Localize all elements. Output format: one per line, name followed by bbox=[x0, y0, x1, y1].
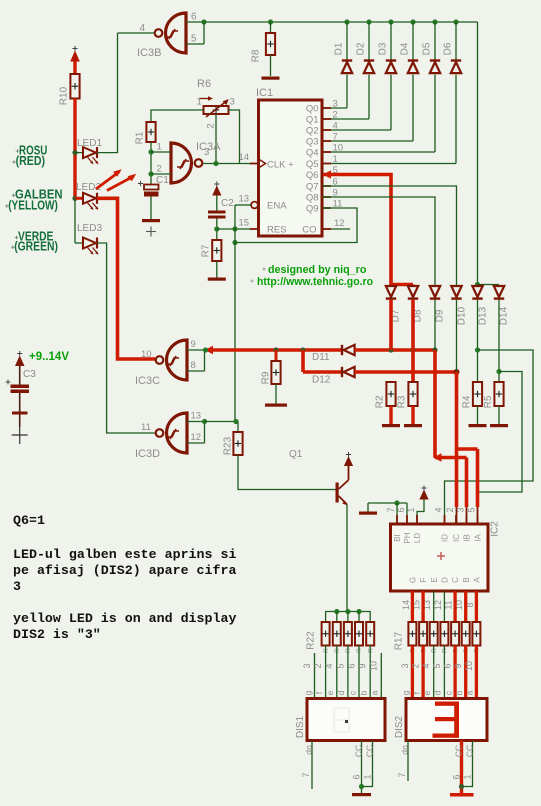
svg-text:7: 7 bbox=[386, 507, 396, 512]
wire to DIS1 c bbox=[358, 646, 360, 699]
svg-text:D3: D3 bbox=[378, 42, 389, 55]
svg-text:E: E bbox=[430, 577, 439, 582]
supply arrow C2 bbox=[212, 186, 221, 196]
svg-text:a: a bbox=[370, 690, 380, 695]
digit 3 on DIS2 bbox=[435, 702, 458, 706]
svg-text:8: 8 bbox=[191, 360, 196, 371]
IC2 origin cross bbox=[437, 555, 445, 557]
svg-text:Q0: Q0 bbox=[306, 104, 319, 115]
pin Q2 (pin 4) bbox=[322, 129, 331, 131]
svg-text:3: 3 bbox=[333, 99, 338, 110]
svg-text:7: 7 bbox=[397, 772, 407, 777]
svg-text:1: 1 bbox=[333, 154, 338, 165]
svg-text:14: 14 bbox=[401, 600, 411, 610]
svg-text:yellow LED is on and display: yellow LED is on and display bbox=[13, 611, 236, 626]
wire R17 to DIS2 f bbox=[421, 646, 424, 699]
resistor R7 bbox=[212, 240, 221, 261]
svg-text:1: 1 bbox=[197, 97, 202, 108]
pin IC2 LD (pin 1) bbox=[416, 515, 418, 524]
svg-text:F: F bbox=[419, 577, 428, 582]
wire R10 to LEDs bbox=[73, 99, 76, 199]
label GALBEN YELLOW bbox=[12, 194, 16, 196]
wire top supply rail bbox=[204, 21, 478, 23]
svg-text:10: 10 bbox=[141, 349, 152, 360]
pin RES (pin 15) bbox=[250, 228, 259, 230]
wire R6 pin3 down bbox=[229, 110, 240, 164]
svg-text:2: 2 bbox=[157, 164, 162, 175]
svg-text:(YELLOW): (YELLOW) bbox=[8, 198, 58, 212]
resistor R2 bbox=[386, 382, 395, 406]
wire R6 pin1 to R1 bbox=[151, 110, 204, 122]
diode D7 bbox=[386, 286, 396, 297]
svg-text:R4: R4 bbox=[462, 395, 473, 408]
svg-text:5: 5 bbox=[191, 34, 197, 45]
pin DIS2 dp bbox=[407, 741, 409, 782]
pin Q9 (pin 11) bbox=[322, 207, 331, 209]
wire red row A bbox=[209, 348, 342, 352]
svg-text:CC: CC bbox=[453, 745, 463, 757]
svg-text:1: 1 bbox=[362, 774, 372, 779]
svg-text:b: b bbox=[454, 690, 464, 695]
svg-text:12: 12 bbox=[191, 432, 202, 443]
wire red V2 to IC2 bbox=[455, 372, 459, 507]
resistor R23 bbox=[237, 422, 239, 433]
svg-text:LED1: LED1 bbox=[77, 138, 102, 149]
wire Q6 red to D7 D8 bbox=[323, 175, 391, 287]
diode D13 bbox=[475, 282, 480, 287]
svg-text:7: 7 bbox=[301, 772, 311, 777]
ground R9 bbox=[265, 404, 287, 407]
wire to DIS1 g bbox=[314, 653, 316, 699]
wire RES net bbox=[217, 228, 250, 230]
svg-text:R: R bbox=[323, 648, 330, 653]
svg-text:d: d bbox=[433, 690, 443, 695]
svg-text:R22: R22 bbox=[306, 631, 317, 650]
pin DIS1 dp bbox=[311, 741, 313, 790]
wire to DIS1 d bbox=[347, 646, 349, 699]
svg-text:(GREEN): (GREEN) bbox=[14, 239, 58, 253]
pin Q7 (pin 6) bbox=[322, 185, 331, 187]
svg-text:pe afisaj (DIS2) apare cifra: pe afisaj (DIS2) apare cifra bbox=[13, 563, 236, 578]
pin Q6 (pin 5) bbox=[322, 174, 331, 176]
pin Q5 (pin 1) bbox=[322, 163, 331, 165]
display DIS1 bbox=[307, 699, 385, 741]
pin IC2 BI (pin 7) bbox=[396, 515, 398, 524]
wire R1 to IC3A inputs bbox=[150, 142, 152, 185]
wire R17 to DIS2 d bbox=[443, 646, 445, 699]
svg-text:Q6=1: Q6=1 bbox=[13, 513, 45, 528]
svg-text:4: 4 bbox=[433, 507, 443, 512]
wire R17 to DIS2 e bbox=[433, 646, 435, 699]
svg-text:R10: R10 bbox=[59, 86, 70, 105]
svg-text:IC1: IC1 bbox=[256, 87, 273, 99]
diode D2 bbox=[366, 19, 371, 24]
diode D1 bbox=[344, 19, 349, 24]
resistor R1 bbox=[146, 122, 155, 142]
svg-text:IC3D: IC3D bbox=[135, 448, 160, 460]
wire to DIS1 f bbox=[325, 646, 327, 699]
svg-text:A: A bbox=[473, 577, 482, 583]
svg-text:IB: IB bbox=[463, 534, 472, 542]
wire IC3B output to LED1 bbox=[117, 33, 119, 153]
pin Q0 (pin 3) bbox=[322, 107, 331, 109]
ground R3 bbox=[404, 424, 422, 427]
diode D10 bbox=[451, 286, 461, 297]
supply arrow Q1 bbox=[344, 456, 353, 466]
svg-text:RES: RES bbox=[267, 225, 287, 236]
svg-text:G: G bbox=[409, 577, 418, 583]
svg-text:R23: R23 bbox=[223, 436, 234, 455]
pin Q8 (pin 9) bbox=[322, 196, 331, 198]
ground R4 bbox=[469, 424, 487, 427]
svg-text:C: C bbox=[451, 577, 460, 583]
diode D5 bbox=[432, 19, 437, 24]
svg-text:CLK +: CLK + bbox=[267, 160, 294, 171]
ground C3 origin cross bbox=[12, 434, 28, 436]
svg-text:4: 4 bbox=[324, 663, 334, 668]
svg-text:CO: CO bbox=[302, 225, 316, 236]
svg-text:D1: D1 bbox=[334, 42, 345, 55]
svg-text:R7: R7 bbox=[201, 244, 212, 257]
svg-text:LED-ul galben este aprins si: LED-ul galben este aprins si bbox=[13, 547, 236, 562]
svg-text:DIS2 is "3": DIS2 is "3" bbox=[13, 627, 101, 642]
resistor R8 bbox=[268, 19, 273, 24]
svg-text:c: c bbox=[443, 690, 453, 695]
svg-text:6: 6 bbox=[346, 663, 356, 668]
svg-text:PH: PH bbox=[403, 532, 412, 543]
pin CO (pin 12) bbox=[322, 228, 350, 230]
svg-text:CC: CC bbox=[353, 745, 363, 757]
pin IC2 IC (pin 2) bbox=[455, 515, 457, 524]
resistor R9 bbox=[275, 350, 278, 361]
pin CLK (pin 14) bbox=[250, 163, 259, 165]
svg-text:g: g bbox=[401, 690, 411, 695]
label VERDE GREEN bbox=[15, 236, 19, 238]
svg-text:R: R bbox=[431, 648, 438, 653]
ground DIS2 highlighted bbox=[450, 793, 474, 797]
wire to DIS1 b bbox=[369, 646, 371, 699]
svg-text:Q4: Q4 bbox=[306, 148, 319, 159]
svg-text:2: 2 bbox=[206, 123, 217, 128]
wire LED3 to IC3D bbox=[97, 243, 155, 433]
svg-text:5: 5 bbox=[432, 663, 442, 668]
svg-text:ENA: ENA bbox=[267, 201, 287, 212]
svg-text:R: R bbox=[356, 648, 363, 653]
svg-text:3: 3 bbox=[302, 663, 312, 668]
svg-text:R2: R2 bbox=[375, 395, 386, 408]
svg-text:a: a bbox=[465, 690, 475, 695]
svg-text:R: R bbox=[334, 648, 341, 653]
diode D8 bbox=[408, 286, 418, 297]
svg-text:13: 13 bbox=[239, 194, 250, 205]
svg-text:6: 6 bbox=[396, 507, 406, 512]
pin DIS2 CC bbox=[460, 741, 463, 794]
svg-text:9: 9 bbox=[358, 663, 368, 668]
resistor R3 bbox=[408, 382, 417, 406]
svg-text:2: 2 bbox=[445, 507, 455, 512]
supply arrow R10 bbox=[70, 51, 80, 62]
svg-text:7: 7 bbox=[333, 132, 338, 143]
svg-text:R9: R9 bbox=[261, 371, 272, 384]
ground R5 bbox=[490, 424, 508, 427]
svg-text:6: 6 bbox=[442, 663, 452, 668]
wire red V1 to IC2 bbox=[433, 350, 437, 458]
node rail-IC3B tie bbox=[201, 19, 206, 24]
wire R17 to DIS2 a bbox=[475, 646, 478, 699]
svg-text:9: 9 bbox=[453, 663, 463, 668]
svg-text:3: 3 bbox=[400, 663, 410, 668]
svg-text:Q9: Q9 bbox=[306, 204, 319, 215]
diode D4 bbox=[410, 19, 415, 24]
svg-text:2: 2 bbox=[333, 110, 338, 121]
svg-text:C2: C2 bbox=[221, 198, 234, 209]
svg-text:13: 13 bbox=[191, 411, 202, 422]
svg-text:D12: D12 bbox=[312, 375, 331, 386]
wire R17 to DIS2 b bbox=[464, 646, 467, 699]
wire Q4 to D5 bbox=[322, 151, 435, 153]
svg-text:D11: D11 bbox=[312, 352, 330, 363]
svg-text:b: b bbox=[358, 690, 368, 695]
wire R17 to DIS2 g bbox=[411, 646, 414, 699]
svg-text:D10: D10 bbox=[457, 306, 468, 325]
wire Q7 to D10 bbox=[322, 186, 457, 286]
svg-text:D4: D4 bbox=[400, 42, 411, 55]
svg-text:DIS2: DIS2 bbox=[394, 715, 405, 738]
svg-text:CC: CC bbox=[464, 745, 474, 757]
svg-text:CC: CC bbox=[364, 745, 374, 757]
svg-text:12: 12 bbox=[334, 218, 345, 229]
pin Q4 (pin 10) bbox=[322, 151, 331, 153]
supply arrow IC2 bbox=[419, 490, 428, 500]
svg-text:3: 3 bbox=[455, 507, 465, 512]
wire Q1 emitter to R22 bbox=[346, 505, 348, 612]
wire D13 net to IC2 ID bbox=[445, 350, 534, 524]
svg-text:10: 10 bbox=[369, 661, 379, 671]
svg-text:BI: BI bbox=[393, 534, 402, 542]
wire to DIS1 e bbox=[336, 646, 338, 699]
svg-text:IC: IC bbox=[452, 534, 461, 542]
wire LED2 to IC3C bbox=[97, 198, 155, 359]
wire R22 supply rail bbox=[325, 611, 370, 613]
svg-text:R3: R3 bbox=[397, 395, 408, 408]
svg-text:Q3: Q3 bbox=[306, 137, 319, 148]
svg-text:1: 1 bbox=[462, 774, 472, 779]
highlight arrows LED2 lit bbox=[96, 172, 120, 190]
svg-text:(RED): (RED) bbox=[16, 154, 45, 168]
diode D3 bbox=[388, 19, 393, 24]
svg-text:DIS1: DIS1 bbox=[295, 715, 306, 738]
svg-text:Q6: Q6 bbox=[306, 170, 319, 181]
svg-text:Q1: Q1 bbox=[289, 449, 303, 460]
svg-text:11: 11 bbox=[141, 422, 151, 433]
LED LED3 bbox=[74, 198, 76, 243]
wire red row B bbox=[301, 350, 305, 372]
svg-text:1: 1 bbox=[157, 142, 162, 153]
svg-text:10: 10 bbox=[464, 661, 474, 671]
svg-text:B: B bbox=[462, 577, 471, 582]
svg-text:D9: D9 bbox=[435, 309, 446, 322]
capacitor C1 bbox=[138, 183, 143, 185]
ground R8 bbox=[262, 77, 280, 80]
IC2 display driver 4511 bbox=[391, 524, 489, 591]
ground IC2 BI PH bbox=[359, 512, 377, 515]
NAND gate IC3D bbox=[167, 413, 188, 453]
svg-text:g: g bbox=[303, 690, 313, 695]
svg-text:d: d bbox=[336, 690, 346, 695]
wire Q9 to ENA net bbox=[235, 208, 357, 243]
svg-text:4: 4 bbox=[139, 23, 145, 34]
svg-text:5: 5 bbox=[466, 507, 476, 512]
wire R17 to DIS2 c bbox=[453, 646, 456, 699]
ground DIS1 bbox=[352, 793, 371, 796]
wire IC3A output to CLK bbox=[203, 163, 250, 165]
svg-text:R: R bbox=[442, 648, 449, 653]
wire D14 net right bbox=[479, 372, 522, 493]
svg-text:R5: R5 bbox=[483, 395, 494, 408]
NAND gate IC3A bbox=[171, 143, 192, 183]
svg-text:Q7: Q7 bbox=[306, 182, 319, 193]
wire IC2 outputs to R17 bbox=[411, 591, 414, 622]
svg-text:C3: C3 bbox=[23, 369, 36, 380]
label ROSU RED bbox=[16, 150, 20, 152]
display DIS2 bbox=[406, 699, 487, 741]
diode D6 bbox=[453, 19, 458, 24]
trimmer R6 bbox=[204, 106, 229, 114]
svg-text:designed by niq_ro: designed by niq_ro bbox=[268, 264, 367, 276]
wire R6 wiper to CLK net bbox=[215, 114, 217, 164]
resistor R10 bbox=[70, 74, 79, 99]
wire row A after D11 bbox=[355, 348, 435, 352]
ground R7 bbox=[208, 278, 226, 281]
svg-text:C1: C1 bbox=[156, 175, 169, 186]
diode D9 bbox=[430, 286, 440, 297]
svg-text:e: e bbox=[422, 690, 432, 695]
capacitor C2 bbox=[208, 211, 226, 214]
svg-text:D5: D5 bbox=[422, 42, 433, 55]
svg-text:R8: R8 bbox=[251, 49, 262, 62]
wire Q1 to D2 bbox=[322, 118, 369, 120]
svg-text:1: 1 bbox=[406, 507, 416, 512]
svg-text:http://www.tehnic.go.ro: http://www.tehnic.go.ro bbox=[257, 276, 373, 288]
svg-text:3: 3 bbox=[13, 579, 21, 594]
resistor R4 bbox=[473, 382, 482, 406]
svg-text:D: D bbox=[441, 577, 450, 583]
svg-text:IC2: IC2 bbox=[490, 521, 501, 537]
wire Q0 to D1 bbox=[322, 107, 347, 109]
resistor R5 bbox=[494, 382, 503, 406]
svg-text:6: 6 bbox=[351, 774, 361, 779]
wire Q8 to D9 bbox=[322, 197, 435, 286]
diode D14 bbox=[494, 286, 504, 297]
svg-text:15: 15 bbox=[239, 218, 250, 229]
svg-text:D14: D14 bbox=[499, 306, 510, 325]
NAND gate IC3B bbox=[166, 13, 187, 53]
diode D11 bbox=[341, 345, 343, 355]
pin Q1 (pin 2) bbox=[322, 118, 331, 120]
text designed-by bbox=[262, 268, 265, 270]
svg-text:R: R bbox=[367, 648, 374, 653]
svg-text:D13: D13 bbox=[478, 306, 489, 325]
svg-text:IA: IA bbox=[474, 534, 483, 542]
svg-text:9: 9 bbox=[191, 339, 196, 350]
wire R23 to Q1 base bbox=[238, 455, 336, 490]
svg-text:R17: R17 bbox=[394, 631, 405, 650]
wire ENA net vertical bbox=[235, 204, 251, 206]
ground C1 bbox=[142, 219, 160, 222]
wire LED1 to IC3B bbox=[97, 152, 118, 154]
svg-text:2: 2 bbox=[410, 663, 420, 668]
svg-text:4: 4 bbox=[421, 663, 431, 668]
pin ENA (pin 13) bbox=[251, 202, 258, 209]
svg-text:3: 3 bbox=[230, 97, 235, 108]
wire Q5 to D6 bbox=[322, 163, 456, 165]
svg-text:Q1: Q1 bbox=[306, 115, 319, 126]
svg-text:D2: D2 bbox=[356, 42, 367, 55]
pin IC2 IB (pin 3) bbox=[466, 515, 468, 524]
svg-text:6: 6 bbox=[451, 774, 461, 779]
svg-text:+9..14V: +9..14V bbox=[29, 349, 69, 363]
svg-text:6: 6 bbox=[191, 12, 197, 23]
svg-text:R6: R6 bbox=[197, 78, 211, 90]
svg-text:3: 3 bbox=[204, 147, 209, 158]
wire to DIS1 a bbox=[380, 653, 382, 699]
svg-text:4: 4 bbox=[333, 121, 338, 132]
svg-text:IC3C: IC3C bbox=[135, 375, 160, 387]
ground R2 bbox=[382, 424, 400, 427]
wire Q3 to D4 bbox=[322, 140, 413, 142]
svg-text:Q8: Q8 bbox=[306, 193, 319, 204]
wire Q2 to D3 bbox=[322, 129, 391, 131]
svg-text:2: 2 bbox=[313, 663, 323, 668]
svg-text:Q2: Q2 bbox=[306, 126, 319, 137]
svg-text:D6: D6 bbox=[443, 42, 454, 55]
IC1 counter 4017 bbox=[259, 100, 323, 236]
svg-text:dp: dp bbox=[303, 745, 313, 755]
svg-text:Q5: Q5 bbox=[306, 159, 319, 170]
pin IC2 IA (pin 5) bbox=[477, 515, 479, 524]
pin Q3 (pin 7) bbox=[322, 140, 331, 142]
diode D12 bbox=[341, 367, 343, 377]
svg-text:10: 10 bbox=[333, 143, 344, 154]
NAND gate IC3C bbox=[167, 340, 188, 380]
svg-text:dp: dp bbox=[399, 745, 409, 755]
svg-text:e: e bbox=[325, 690, 335, 695]
svg-text:IC3B: IC3B bbox=[137, 47, 161, 59]
pin IC2 ID (pin 4) bbox=[444, 515, 446, 524]
svg-text:R1: R1 bbox=[135, 131, 146, 144]
pin DIS1 CC bbox=[361, 741, 363, 794]
svg-text:ID: ID bbox=[441, 534, 450, 542]
svg-text:LED3: LED3 bbox=[77, 223, 102, 234]
svg-text:R: R bbox=[345, 648, 352, 653]
svg-text:5: 5 bbox=[335, 663, 345, 668]
pin IC2 PH (pin 6) bbox=[406, 515, 408, 524]
svg-text:LD: LD bbox=[413, 533, 422, 543]
